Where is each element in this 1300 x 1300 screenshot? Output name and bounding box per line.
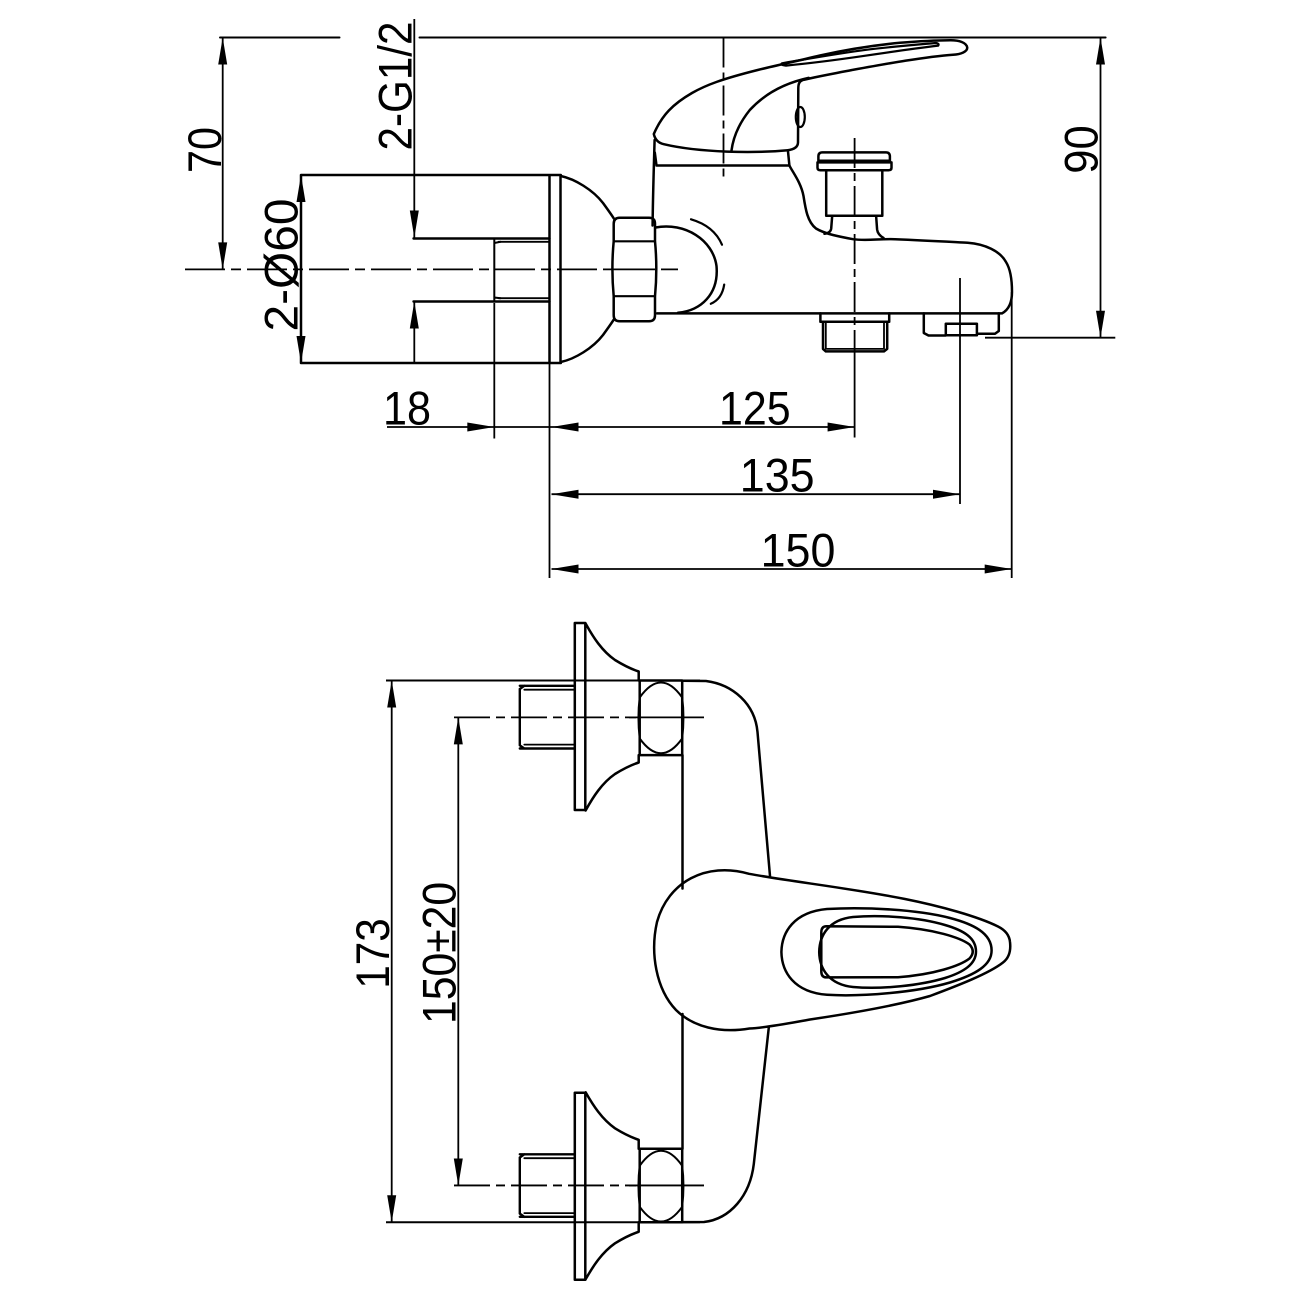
svg-text:135: 135 xyxy=(740,449,815,502)
svg-text:70: 70 xyxy=(178,127,231,173)
faucet body left edge xyxy=(653,140,655,226)
arrows 70 xyxy=(218,38,227,65)
arrows 150 xyxy=(552,565,579,574)
svg-text:150±20: 150±20 xyxy=(413,882,466,1024)
arrows 90 xyxy=(1096,38,1105,65)
aerator insert xyxy=(946,324,977,335)
tub spout outlet boss xyxy=(924,313,999,335)
inlet dome echo arc lower xyxy=(711,285,724,304)
top escutcheon cone (bottom view) xyxy=(586,624,639,681)
shower outlet thread xyxy=(823,322,887,352)
cartridge collar xyxy=(655,150,790,165)
diverter knob neck xyxy=(825,216,884,238)
shower outlet flange xyxy=(820,313,889,321)
svg-text:2-Ø60: 2-Ø60 xyxy=(255,199,308,332)
diverter/shower outlet centerline xyxy=(854,138,856,360)
arrow 18 right-pointing xyxy=(467,423,494,432)
top supply pipe (bottom view) xyxy=(520,686,575,749)
dimension 70 xyxy=(222,38,224,270)
handle oval inner xyxy=(819,916,976,988)
centerline of eccentric axis (top view) xyxy=(185,268,608,270)
diverter knob cap xyxy=(818,152,890,160)
body outline: collar right edge, S-curve, spout top, right end, bottom xyxy=(657,166,1012,314)
arrows O60 xyxy=(297,175,306,202)
dimension 135 xyxy=(552,493,961,495)
173 reference lines xyxy=(386,681,700,1223)
eccentric centerline top (bottom view) xyxy=(454,716,636,718)
arrow 2-G1/2 down xyxy=(410,211,419,238)
handle top slot xyxy=(781,43,938,66)
top hex nut (bottom view) xyxy=(640,681,683,756)
inlet dome echo arc upper xyxy=(691,219,722,244)
dimension 150 xyxy=(552,568,1012,570)
escutcheon bell (side view) xyxy=(561,176,614,218)
handle grip recess xyxy=(821,926,972,977)
arrows 135 xyxy=(552,490,579,499)
svg-text:173: 173 xyxy=(346,918,399,989)
top reference line xyxy=(220,37,1106,39)
dimension 2-G1/2 xyxy=(413,19,415,364)
handle teardrop (bottom view) xyxy=(654,870,1010,1030)
hex nut on eccentric (side view) xyxy=(612,218,656,322)
dimension 173 xyxy=(391,681,393,1223)
svg-text:18: 18 xyxy=(383,382,431,435)
extension line spout outlet center xyxy=(959,278,961,504)
arrows 173 xyxy=(387,681,396,708)
handle axis centerline xyxy=(723,38,725,182)
arrow 125 right-pointing xyxy=(828,423,855,432)
top wall plate (bottom view) xyxy=(575,623,586,810)
diverter knob cylinder xyxy=(826,170,882,216)
dimension 2-O60 xyxy=(300,175,302,363)
bottom wall plate (bottom view) xyxy=(575,1093,586,1280)
handle oval outer xyxy=(781,908,991,995)
arrows 150+-20 xyxy=(454,717,463,744)
extension line spout end xyxy=(1011,292,1013,578)
svg-text:150: 150 xyxy=(761,524,836,577)
dimension 90 xyxy=(1100,38,1102,338)
svg-text:125: 125 xyxy=(719,382,791,435)
supply pipe with G1/2 thread (side view) xyxy=(414,239,550,302)
arrow 2-G1/2 up xyxy=(410,302,419,329)
handle dome and lever (side view) xyxy=(654,40,967,152)
svg-text:2-G1/2: 2-G1/2 xyxy=(369,22,422,151)
eccentric centerline bottom (bottom view) xyxy=(454,1184,636,1186)
handle set-screw oval xyxy=(796,107,805,127)
body outline (bottom view): top edge, right corner, slant edges, bottom xyxy=(682,681,770,876)
bottom escutcheon cone (bottom view) xyxy=(586,1092,639,1149)
faucet body inlet dome xyxy=(656,227,717,313)
dimension 18 and 125 line xyxy=(387,426,855,428)
bottom supply pipe (bottom view) xyxy=(520,1154,575,1217)
arrow at wall face left-pointing xyxy=(552,423,579,432)
90 bottom reference line xyxy=(985,337,1115,339)
body left edge segments xyxy=(681,755,684,1149)
handle crease line xyxy=(732,78,809,151)
wall/escutcheon rectangle side view xyxy=(301,175,561,363)
bottom hex nut (bottom view) xyxy=(640,1149,683,1223)
extension line thread start xyxy=(493,303,495,439)
dimension 150+-20 xyxy=(457,717,459,1185)
svg-text:90: 90 xyxy=(1055,125,1108,174)
extension line wall face xyxy=(549,363,551,578)
